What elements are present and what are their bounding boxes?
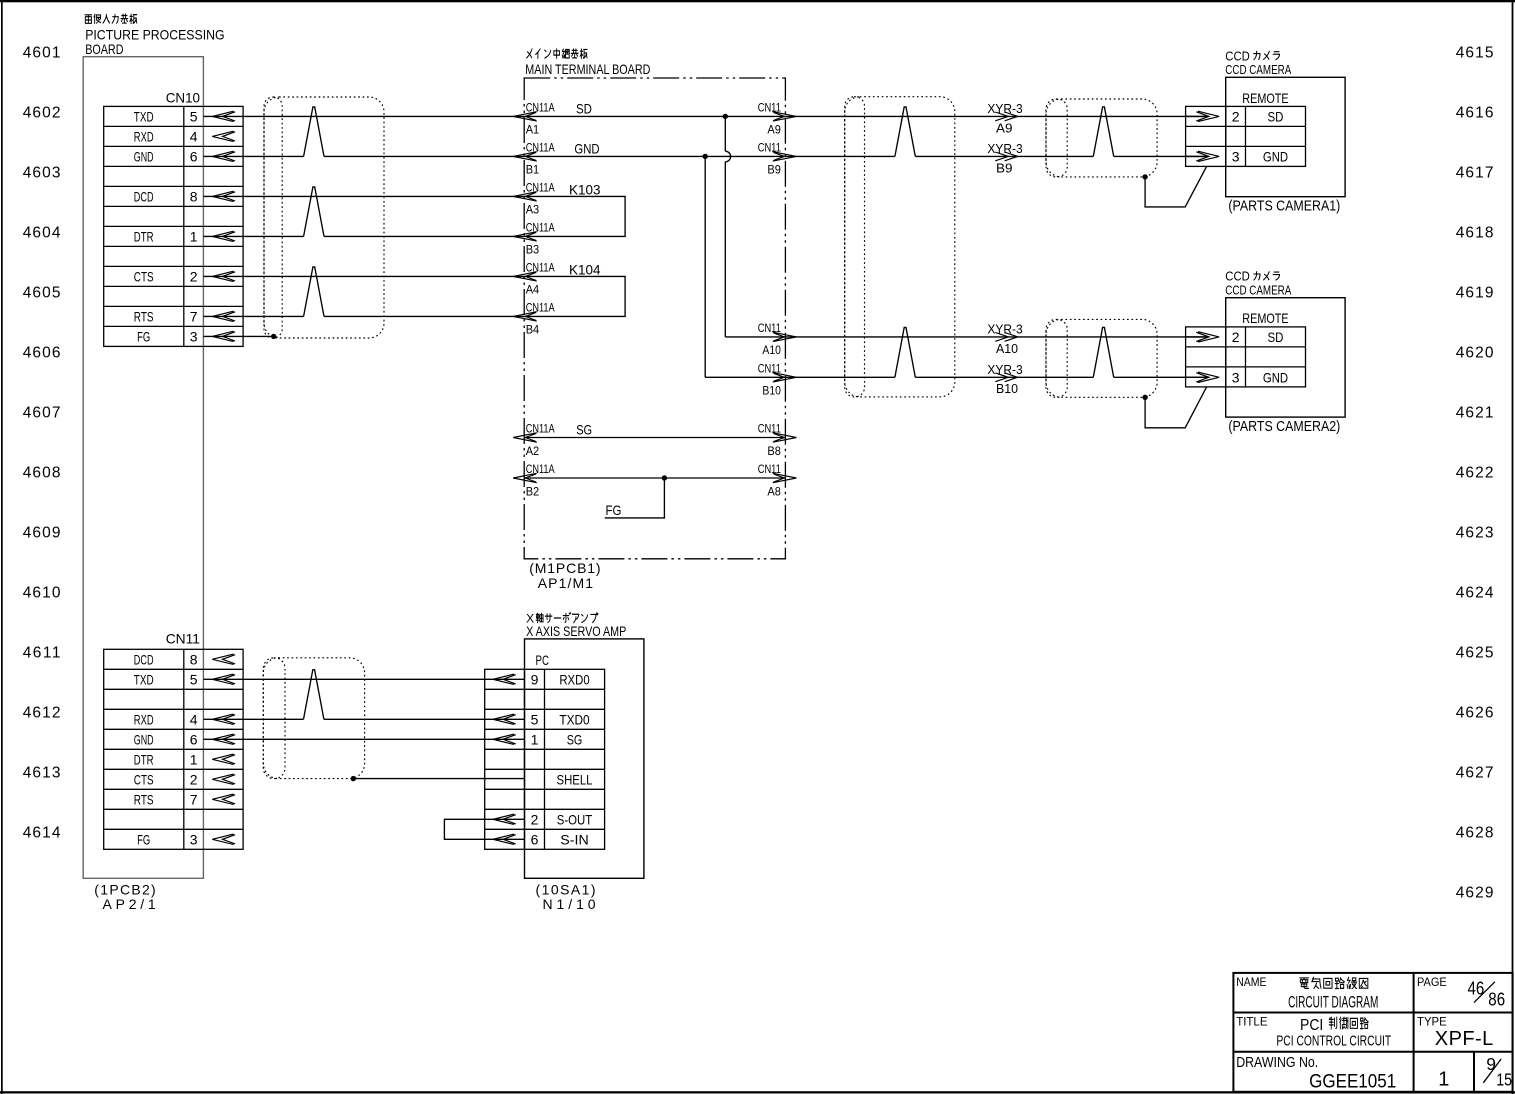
svg-text:4603: 4603	[23, 164, 61, 181]
connector CN11 pin names and numbers	[134, 651, 198, 847]
svg-text:2: 2	[1232, 329, 1240, 345]
svg-text:REMOTE: REMOTE	[1242, 310, 1288, 326]
svg-text:A4: A4	[526, 283, 540, 297]
svg-text:GND: GND	[1263, 148, 1288, 164]
svg-text:4619: 4619	[1456, 284, 1494, 301]
svg-text:4628: 4628	[1456, 824, 1494, 841]
label 画像入力基板	[85, 14, 137, 23]
relay K104 coil box	[524, 276, 625, 316]
relay K103 coil box	[524, 196, 625, 236]
svg-text:TXD: TXD	[134, 671, 154, 687]
junction dot GND branch	[703, 154, 708, 159]
svg-text:CCD CAMERA: CCD CAMERA	[1225, 62, 1291, 77]
svg-text:(PARTS CAMERA1): (PARTS CAMERA1)	[1228, 198, 1340, 214]
svg-text:DRAWING No.: DRAWING No.	[1236, 1054, 1318, 1071]
svg-text:XYR-3: XYR-3	[987, 363, 1022, 377]
wire SD2: CN11-A10 to camera2 pin2	[785, 336, 1208, 338]
svg-text:CTS: CTS	[134, 268, 154, 284]
svg-text:RTS: RTS	[134, 308, 154, 324]
svg-text:4626: 4626	[1456, 704, 1494, 721]
pin CN11A-B1 left edge arrow and labels	[513, 152, 537, 161]
board AP2/1 PICTURE PROCESSING BOARD outline	[83, 57, 203, 879]
svg-text:4622: 4622	[1456, 464, 1494, 481]
svg-text:GND: GND	[134, 148, 154, 164]
svg-text:K103: K103	[569, 181, 601, 197]
svg-text:4627: 4627	[1456, 764, 1494, 781]
pin CN11A-A4 left edge arrow and labels	[513, 272, 537, 281]
svg-text:K104: K104	[569, 261, 601, 277]
svg-text:TXD0: TXD0	[559, 711, 589, 727]
connector CN11 table	[104, 649, 243, 849]
pin CN11A-A1 left edge arrow and labels	[513, 112, 537, 121]
svg-text:B1: B1	[526, 163, 540, 177]
wire RXD: CN11-4 to PC-5 TXD0 with twisted-pair symbol	[203, 670, 524, 720]
svg-text:2: 2	[531, 811, 539, 827]
svg-text:PCI CONTROL CIRCUIT: PCI CONTROL CIRCUIT	[1276, 1032, 1391, 1049]
svg-text:3: 3	[190, 831, 198, 847]
svg-text:1: 1	[1438, 1069, 1449, 1091]
svg-text:A10: A10	[762, 343, 781, 357]
svg-text:A1: A1	[526, 123, 540, 137]
zone numbers left column 4601-4614	[23, 44, 61, 841]
CCD camera 2 outline	[1226, 298, 1345, 417]
svg-text:3: 3	[190, 328, 198, 344]
wire SG: A2 to B8	[524, 437, 785, 439]
svg-text:(M1PCB1): (M1PCB1)	[529, 560, 600, 576]
svg-text:CN11A: CN11A	[526, 140, 555, 154]
svg-text:XPF-L: XPF-L	[1435, 1028, 1493, 1050]
pin CN11A-A3 left edge arrow and labels	[513, 192, 537, 201]
svg-text:DTR: DTR	[134, 751, 154, 767]
svg-text:CN11: CN11	[758, 462, 781, 476]
svg-text:4615: 4615	[1456, 44, 1494, 61]
svg-text:4614: 4614	[23, 824, 61, 841]
pin CN11A-B2 left edge arrow and labels	[513, 473, 537, 482]
svg-text:7: 7	[190, 308, 198, 324]
svg-text:XYR-3: XYR-3	[987, 142, 1022, 156]
svg-text:PCI: PCI	[1300, 1017, 1323, 1034]
svg-text:7: 7	[190, 791, 198, 807]
svg-text:B9: B9	[767, 163, 781, 177]
svg-text:6: 6	[190, 731, 198, 747]
svg-text:4623: 4623	[1456, 524, 1494, 541]
svg-text:2: 2	[190, 268, 198, 284]
svg-text:TXD: TXD	[134, 108, 154, 124]
camera 2 pin table	[1186, 327, 1306, 387]
camera 1 pin 3 GND	[1186, 151, 1220, 161]
svg-text:CN11A: CN11A	[526, 220, 555, 234]
svg-text:SD: SD	[1268, 108, 1284, 124]
svg-text:DCD: DCD	[134, 651, 154, 667]
svg-text:S-IN: S-IN	[560, 831, 588, 847]
pin CN11A-B4 left edge arrow and labels	[513, 312, 537, 321]
svg-text:CN11A: CN11A	[526, 260, 555, 274]
svg-text:4612: 4612	[23, 704, 61, 721]
svg-text:4621: 4621	[1456, 404, 1494, 421]
svg-text:A3: A3	[526, 203, 540, 217]
svg-text:CN11: CN11	[758, 422, 781, 436]
pin CN11-B8 right edge arrow and labels	[773, 433, 797, 442]
svg-text:6: 6	[190, 148, 198, 164]
camera 2 pin 3 GND	[1186, 372, 1220, 382]
title block frame	[1233, 973, 1512, 1092]
shield drain wire to camera 1 connector	[1145, 166, 1207, 207]
wire FG bus: B2 to A8	[524, 477, 785, 479]
svg-text:4604: 4604	[23, 224, 61, 241]
svg-text:GND: GND	[574, 140, 599, 156]
svg-text:A9: A9	[996, 121, 1013, 135]
svg-text:CN11A: CN11A	[526, 300, 555, 314]
svg-text:3: 3	[1232, 369, 1240, 385]
wire TXD: CN10-5 to CN11A-A1 (SD)	[203, 115, 524, 117]
svg-text:4: 4	[190, 128, 198, 144]
CCD camera 1 outline	[1226, 77, 1345, 196]
cable shield boundary (servo cable, dotted)	[263, 658, 364, 779]
svg-text:B2: B2	[526, 484, 540, 498]
svg-text:CN11: CN11	[758, 361, 781, 375]
svg-text:CN11: CN11	[758, 140, 781, 154]
svg-text:CN11A: CN11A	[526, 100, 555, 114]
svg-text:2: 2	[1232, 108, 1240, 124]
svg-text:CN11: CN11	[758, 100, 781, 114]
wire GND: CN10-6 to CN11A-B1 with twisted-pair symbol	[203, 107, 524, 156]
svg-text:A9: A9	[767, 123, 781, 137]
svg-text:B9: B9	[996, 161, 1013, 175]
svg-text:4624: 4624	[1456, 584, 1494, 601]
svg-text:B3: B3	[526, 243, 540, 257]
svg-text:3: 3	[1232, 148, 1240, 164]
svg-text:4625: 4625	[1456, 644, 1494, 661]
svg-text:B4: B4	[526, 323, 540, 337]
svg-text:RXD: RXD	[134, 128, 154, 144]
camera 2 pin 2 SD	[1186, 332, 1220, 342]
svg-text:FG: FG	[606, 502, 622, 518]
svg-text:CN11: CN11	[166, 631, 200, 647]
svg-text:(10SA1): (10SA1)	[536, 882, 596, 898]
pin CN11-A8 right edge arrow and labels	[773, 473, 797, 482]
svg-text:SHELL: SHELL	[557, 771, 593, 787]
svg-text:AP1/M1: AP1/M1	[538, 575, 594, 591]
svg-text:5: 5	[190, 671, 198, 687]
svg-text:4617: 4617	[1456, 164, 1494, 181]
svg-text:4610: 4610	[23, 584, 61, 601]
svg-text:MAIN TERMINAL BOARD: MAIN TERMINAL BOARD	[525, 61, 650, 77]
svg-text:CCD: CCD	[1225, 48, 1250, 63]
svg-text:8: 8	[190, 651, 198, 667]
svg-text:B8: B8	[767, 444, 781, 458]
camera 1 pin table	[1186, 106, 1306, 166]
svg-text:CIRCUIT DIAGRAM: CIRCUIT DIAGRAM	[1288, 993, 1378, 1012]
board AP1/M1 MAIN TERMINAL BOARD outline (dash-dot)	[524, 78, 785, 559]
connector CN10 pin names and numbers	[134, 108, 198, 344]
svg-text:XYR-3: XYR-3	[987, 322, 1022, 336]
pin CN11A-B3 left edge arrow and labels	[513, 232, 537, 241]
label メイン中継基板	[527, 49, 587, 58]
svg-text:CN11A: CN11A	[526, 422, 555, 436]
svg-text:TITLE: TITLE	[1236, 1015, 1267, 1029]
svg-text:BOARD: BOARD	[85, 41, 123, 57]
svg-text:6: 6	[531, 831, 539, 847]
svg-text:CTS: CTS	[134, 771, 154, 787]
svg-text:4: 4	[190, 711, 198, 727]
shield junction dot to SHELL	[351, 776, 356, 781]
svg-text:GND: GND	[134, 731, 154, 747]
svg-text:4607: 4607	[23, 404, 61, 421]
svg-text:4616: 4616	[1456, 104, 1494, 121]
svg-text:5: 5	[190, 108, 198, 124]
svg-text:RTS: RTS	[134, 791, 154, 807]
svg-text:DTR: DTR	[134, 228, 154, 244]
svg-text:CN10: CN10	[166, 89, 201, 105]
shield ground junction dot camera2	[1142, 395, 1147, 400]
svg-text:8: 8	[190, 188, 198, 204]
svg-text:CN11: CN11	[758, 321, 781, 335]
svg-text:1: 1	[531, 731, 539, 747]
svg-text:4605: 4605	[23, 284, 61, 301]
svg-text:B10: B10	[762, 384, 781, 398]
wire FG stub	[605, 478, 665, 518]
pin CN11-B9 right edge arrow and labels	[773, 152, 797, 161]
wire GND2: CN11-B10 to camera2 pin3 with twisted-pair symbols	[785, 327, 1208, 377]
wire GND branch vertical to B10	[705, 156, 785, 377]
wire GND: CN11-6 to PC-1 SG	[203, 738, 524, 740]
svg-text:SG: SG	[567, 731, 583, 747]
connector PC pin chevrons	[493, 674, 516, 844]
svg-text:SD: SD	[1268, 329, 1284, 345]
svg-text:1: 1	[190, 228, 198, 244]
pin CN11-A9 right edge arrow and labels	[773, 112, 797, 121]
zone numbers right column 4615-4629	[1456, 44, 1494, 901]
svg-text:AP2/1: AP2/1	[103, 896, 156, 912]
unit 10SA1 X AXIS SERVO AMP outline	[525, 639, 644, 878]
svg-text:1: 1	[190, 751, 198, 767]
svg-text:N1/10: N1/10	[543, 896, 596, 912]
wire SD inside MTB: A1 to A9	[524, 115, 785, 117]
wire RTS: CN10-7 to CN11A-B4 with twisted-pair symbol	[203, 267, 524, 317]
svg-text:4606: 4606	[23, 344, 61, 361]
wire shield to PC SHELL	[353, 778, 524, 780]
svg-text:9: 9	[1486, 1054, 1496, 1074]
svg-text:4629: 4629	[1456, 884, 1494, 901]
svg-text:4608: 4608	[23, 464, 61, 481]
svg-text:GGEE1051: GGEE1051	[1309, 1071, 1396, 1092]
svg-text:FG: FG	[137, 831, 150, 847]
svg-text:2: 2	[190, 771, 198, 787]
svg-text:DCD: DCD	[134, 188, 154, 204]
svg-text:9: 9	[531, 671, 539, 687]
svg-text:X AXIS SERVO AMP: X AXIS SERVO AMP	[526, 623, 626, 639]
wire DCD: CN10-8 to CN11A-A3	[203, 195, 524, 197]
wire SD: CN11-A9 to camera1 pin2	[785, 115, 1208, 117]
pin CN11-A10 right edge arrow and labels	[773, 332, 797, 341]
svg-text:CCD: CCD	[1225, 269, 1250, 284]
wire FG: CN10-3 to cable shield junction	[203, 335, 273, 337]
svg-text:5: 5	[531, 711, 539, 727]
connector CN11 pin chevrons	[212, 654, 235, 844]
camera 1 pin 2 SD	[1186, 111, 1220, 121]
svg-text:15: 15	[1496, 1070, 1512, 1090]
svg-text:4620: 4620	[1456, 344, 1494, 361]
svg-text:4601: 4601	[23, 44, 61, 61]
svg-text:RXD0: RXD0	[559, 671, 589, 687]
wire CTS: CN10-2 to CN11A-A4	[203, 275, 524, 277]
svg-text:PAGE: PAGE	[1417, 975, 1447, 989]
svg-text:SD: SD	[576, 100, 592, 116]
svg-text:A8: A8	[767, 484, 781, 498]
wire GND inside MTB: B1 to B9	[524, 155, 785, 157]
pin CN11A-A2 left edge arrow and labels	[513, 433, 537, 442]
svg-text:4613: 4613	[23, 764, 61, 781]
svg-text:4602: 4602	[23, 104, 61, 121]
wire GND: CN11-B9 to camera1 pin3 with twisted-pair symbols	[785, 107, 1208, 156]
svg-text:XYR-3: XYR-3	[987, 102, 1022, 116]
wire TXD: CN11-5 to PC-9 RXD0	[203, 678, 524, 680]
svg-text:CCD CAMERA: CCD CAMERA	[1225, 283, 1291, 298]
cable shield boundary XYR-3 cable (dotted, both pairs)	[845, 97, 955, 397]
svg-text:REMOTE: REMOTE	[1242, 90, 1288, 106]
svg-text:4618: 4618	[1456, 224, 1494, 241]
junction dot FG to shield	[271, 334, 276, 339]
svg-text:86: 86	[1488, 989, 1505, 1010]
wire loopback PC-2 S-OUT to PC-6 S-IN	[444, 819, 524, 839]
junction dot SD branch	[723, 114, 728, 119]
svg-text:PC: PC	[536, 652, 550, 668]
connector PC pin names and numbers	[531, 671, 593, 847]
cable shield boundary at camera2 (dotted)	[1046, 319, 1157, 397]
svg-text:B10: B10	[996, 382, 1018, 396]
svg-text:A10: A10	[996, 342, 1018, 356]
svg-text:4609: 4609	[23, 524, 61, 541]
svg-text:(1PCB2): (1PCB2)	[94, 882, 155, 898]
svg-text:SG: SG	[576, 422, 592, 438]
shield ground junction dot camera1	[1142, 174, 1147, 179]
svg-text:TYPE: TYPE	[1417, 1015, 1447, 1029]
connector CN10 table	[104, 106, 243, 346]
cable shield boundary (CN10 cable, dotted)	[264, 97, 384, 338]
wire DTR: CN10-1 to CN11A-B3 with twisted-pair symbol	[203, 187, 524, 237]
shield drain wire to camera 2 connector	[1145, 387, 1207, 428]
wire SD branch vertical to A10 (with hop over GND)	[725, 116, 785, 337]
svg-text:(PARTS CAMERA2): (PARTS CAMERA2)	[1228, 419, 1340, 435]
junction dot FG stub	[662, 475, 667, 480]
cable shield boundary at camera1 (dotted)	[1046, 99, 1157, 177]
label 電気回路線図	[1300, 977, 1368, 988]
svg-text:RXD: RXD	[134, 711, 154, 727]
connector PC table	[485, 669, 605, 849]
svg-text:GND: GND	[1263, 369, 1288, 385]
svg-text:A2: A2	[526, 444, 540, 458]
pin CN11-B10 right edge arrow and labels	[773, 373, 797, 382]
svg-text:FG: FG	[137, 328, 150, 344]
svg-text:S-OUT: S-OUT	[557, 811, 593, 827]
connector CN10 pin chevrons	[212, 111, 235, 341]
svg-text:CN11A: CN11A	[526, 462, 555, 476]
svg-text:CN11A: CN11A	[526, 180, 555, 194]
svg-text:NAME: NAME	[1236, 975, 1266, 989]
